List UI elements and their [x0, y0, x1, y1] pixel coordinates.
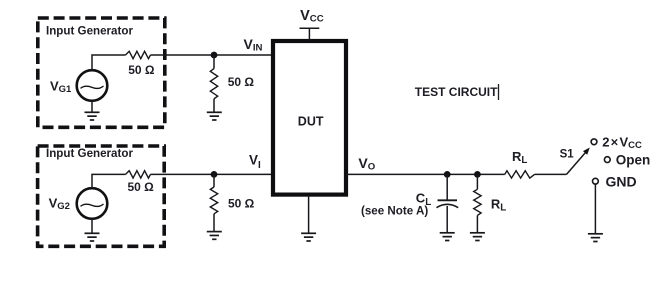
VCC terminal: [300, 28, 320, 41]
source VG2: [77, 188, 108, 219]
svg-text:50 Ω: 50 Ω: [128, 180, 155, 194]
wire GND contact to ground: [594, 184, 596, 234]
ground RL: [470, 233, 485, 241]
svg-text:GND: GND: [606, 173, 637, 189]
wire VG1 to resistor: [92, 55, 126, 70]
svg-text:50 Ω: 50 Ω: [228, 197, 255, 211]
label VIN: [244, 36, 263, 54]
label VO: [358, 155, 375, 173]
label VG1: [50, 79, 72, 96]
wire VG2 to resistor: [92, 174, 126, 188]
svg-text:50 Ω: 50 Ω: [228, 75, 255, 89]
source VG1: [77, 70, 108, 101]
contact 2xVCC: [591, 139, 597, 145]
resistor 50ohm series (gen2): [126, 171, 151, 178]
DUT box U1: [273, 41, 346, 195]
note (see Note A): [361, 205, 428, 218]
label 2 x VCC: [602, 135, 642, 152]
value 50 ohm (gen1 series): [128, 63, 155, 77]
capacitor CL: [437, 174, 459, 232]
svg-text:TEST CIRCUIT: TEST CIRCUIT: [415, 85, 498, 99]
node CL junction dot: [444, 171, 451, 178]
resistor RL shunt: [474, 174, 481, 232]
ground VIN shunt: [207, 112, 222, 120]
svg-text:Open: Open: [616, 153, 651, 168]
label VI: [249, 153, 261, 171]
label RL (shunt): [491, 196, 506, 213]
resistor 50ohm shunt (VI): [210, 174, 217, 231]
contact Open: [604, 157, 610, 163]
svg-text:S1: S1: [560, 149, 575, 161]
label RL (series): [512, 149, 527, 166]
ground VG1: [85, 101, 100, 120]
node VIN junction dot: [211, 52, 218, 59]
input generator 1 dashed box: [38, 18, 165, 127]
label VCC: [300, 8, 324, 25]
label CL: [416, 190, 431, 208]
svg-text:Input Generator: Input Generator: [46, 147, 133, 160]
resistor 50ohm shunt (VIN): [210, 55, 217, 112]
label S1: [560, 149, 575, 161]
wire gen1 to DUT: [151, 54, 272, 56]
svg-text:50 Ω: 50 Ω: [128, 63, 155, 77]
wire gen2 to DUT: [151, 173, 274, 175]
value 50 ohm (gen2 series): [128, 180, 155, 194]
node RL junction dot: [474, 171, 481, 178]
contact GND: [593, 178, 599, 184]
label GND: [606, 173, 637, 189]
resistor 50ohm series (gen1): [126, 51, 151, 58]
node VI junction dot: [211, 171, 218, 178]
ground VG2: [85, 219, 100, 241]
ground CL: [440, 233, 455, 241]
label Input Generator (bottom box): [46, 147, 133, 160]
value 50 ohm (VIN shunt): [228, 75, 255, 89]
title TEST CIRCUIT: [415, 84, 499, 100]
ground switch GND: [588, 234, 603, 242]
label Open: [616, 153, 651, 168]
label VG2: [49, 195, 70, 212]
wire RL to switch pole: [535, 173, 567, 175]
switch S1 arm with arrow: [567, 148, 590, 175]
svg-text:DUT: DUT: [298, 114, 324, 128]
resistor RL series: [505, 171, 535, 178]
value 50 ohm (VI shunt): [228, 197, 255, 211]
input generator 2 dashed box: [38, 146, 165, 246]
svg-text:(see Note A): (see Note A): [361, 205, 428, 218]
ground VI shunt: [207, 232, 222, 240]
wire VO output: [346, 173, 505, 175]
svg-text:Input Generator: Input Generator: [46, 24, 133, 37]
ground DUT: [301, 197, 316, 241]
label Input Generator (top box): [46, 24, 133, 37]
label DUT: [298, 114, 324, 128]
